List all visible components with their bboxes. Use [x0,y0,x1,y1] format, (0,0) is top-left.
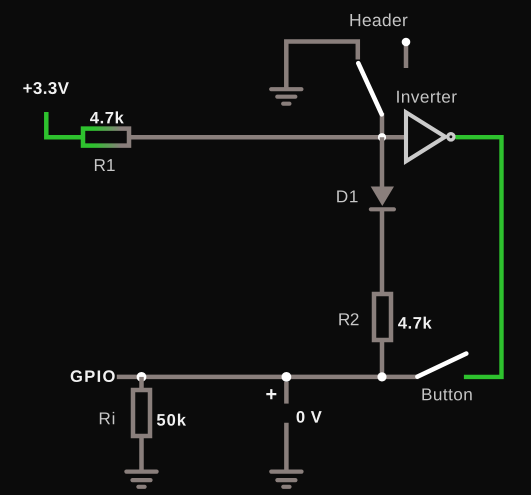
inverter U1 triangle [406,112,445,161]
inverter U1 output bubble [448,134,454,140]
node label +3.3V [23,82,69,94]
wire R2 to bottom rail [380,342,385,377]
junction node (R2 bottom / button) [377,372,386,381]
name label Ri [100,412,114,424]
header pin open-end dot [402,38,411,47]
resistor Ri [133,390,150,436]
name label Header [350,13,407,26]
wire switch throw-1 to ground [286,42,358,89]
name label D1 [337,190,357,202]
junction node (GPIO / Ri) [137,372,147,382]
wire switch common pivot down to node [380,113,385,137]
wire R1 to inverter input [131,135,406,140]
ground (top, switch throw-1) [271,89,301,104]
voltage source V1 bottom lead [284,423,289,470]
ground (bottom left, Ri) [126,472,156,487]
name label Button [422,388,471,400]
wire Ri to ground [139,436,144,470]
ground (bottom middle, V1) [271,472,301,487]
node label GPIO [71,370,115,382]
junction node (0V source / rail) [282,372,292,382]
wire GPIO junction to Ri top [139,377,144,391]
header pin stub (switch throw-2) [404,46,409,68]
name label R1 [95,159,115,171]
switch SW1 blade (white, selecting ground throw) [358,63,381,114]
wire node to D1 anode [380,137,385,188]
diode D1 (triangle) [371,187,394,207]
name label R2 [339,313,358,325]
voltage source V1 top lead [284,382,289,404]
voltage source V1 polarity label + [266,389,276,399]
wire D1 cathode to R2 [380,209,385,293]
name label Inverter [397,91,457,103]
resistor R2 [374,294,391,340]
resistor R1 [83,129,129,146]
wire +3.3V supply to R1 (green) [46,112,83,137]
diode D1 cathode bar [371,207,394,211]
value label 4.7k (R1) [90,111,124,123]
value label 0 V (V1) [297,411,322,423]
button S1 blade (white, open) [417,354,466,377]
value label 4.7k (R2) [398,317,432,329]
value label 50k (Ri) [157,414,186,426]
junction node (switch/inverter/D1) [378,133,386,141]
wire inverter output to button (green, right side) [456,137,502,377]
wire bottom rail GPIO to button [117,375,419,380]
